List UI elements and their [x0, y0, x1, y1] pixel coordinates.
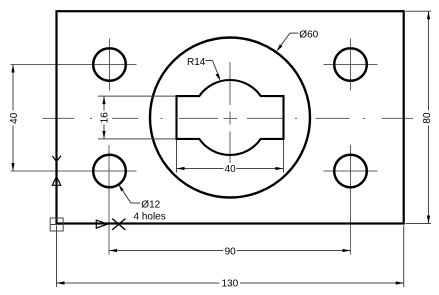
- hole bottom-right: [334, 155, 367, 188]
- central slot with R14 bulges: [177, 80, 284, 155]
- dimension 40 (slot width): [177, 140, 284, 173]
- dimension 90 (bottom): [109, 250, 351, 252]
- leader D12 / 4 holes: [120, 186, 141, 203]
- dimension 80 (right, vertical): [406, 11, 432, 223]
- hole top-right: [334, 48, 367, 81]
- dimension 130 (bottom): [57, 226, 404, 288]
- dimension 40 (left, vertical): [12, 65, 14, 172]
- marker: hollow triangle right on bottom edge: [96, 220, 107, 228]
- svg-text:4 holes: 4 holes: [134, 211, 166, 222]
- hole top-left: [93, 48, 126, 81]
- marker: corner square (datum box): [50, 218, 63, 231]
- hole bottom-left: [93, 155, 126, 188]
- svg-text:16: 16: [99, 112, 110, 124]
- svg-text:R14: R14: [187, 57, 206, 68]
- vertical centerline (dash-dot): [229, 62, 231, 163]
- dimension 16 (slot height): [98, 96, 177, 139]
- svg-text:80: 80: [422, 112, 433, 124]
- hole crosshair top-right: [324, 39, 378, 91]
- big circle D60: [150, 38, 310, 198]
- svg-text:90: 90: [225, 246, 237, 257]
- marker: X on bottom edge: [112, 219, 125, 230]
- svg-text:Ø60: Ø60: [299, 29, 318, 40]
- leader R14: [206, 61, 220, 79]
- hole crosshair bottom-right (vertical merged with 90 extension): [324, 145, 378, 255]
- svg-text:130: 130: [221, 278, 238, 289]
- horizontal centerline (dash-dot): [43, 117, 414, 119]
- marker: open arrow down on left edge: [52, 156, 61, 162]
- hole crosshair top-left (merged with 40 extension line): [11, 39, 137, 91]
- svg-text:Ø12: Ø12: [141, 199, 160, 210]
- plate outline: [57, 11, 404, 223]
- leader D60: [279, 33, 299, 48]
- svg-text:40: 40: [225, 164, 237, 175]
- svg-text:40: 40: [9, 112, 20, 124]
- marker: hollow triangle up on left edge: [52, 177, 60, 186]
- hole crosshair bottom-left (merged with 40 extension, 90 extension): [11, 145, 137, 255]
